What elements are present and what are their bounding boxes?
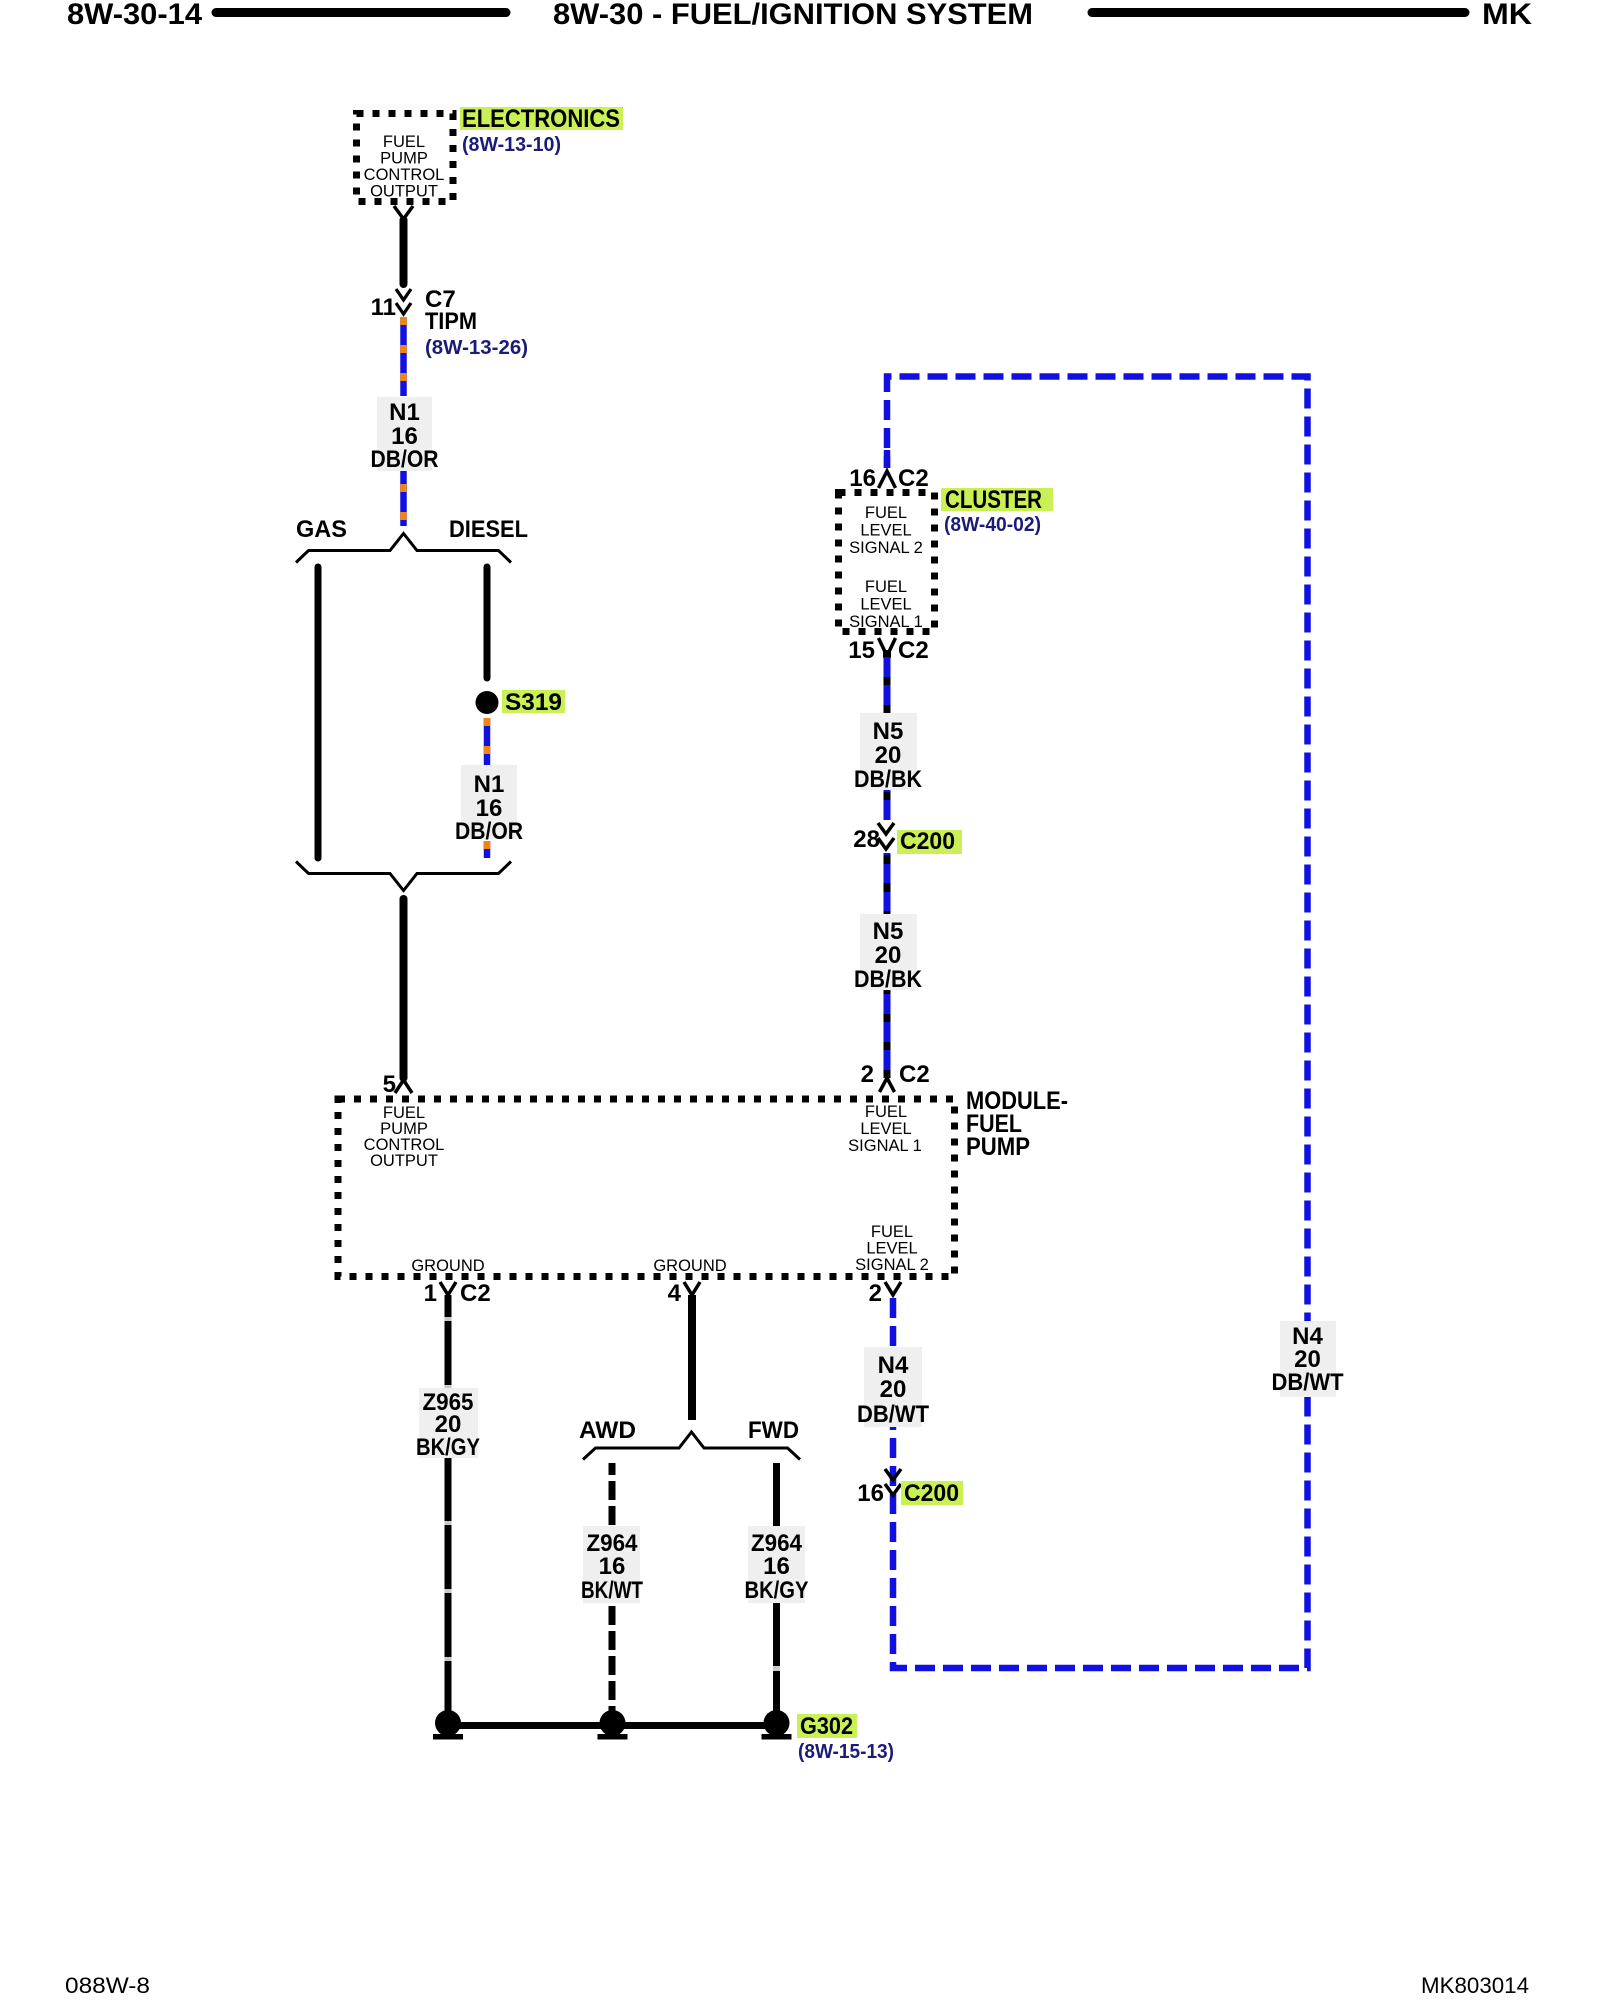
svg-text:1: 1 (424, 1280, 437, 1307)
svg-text:11: 11 (371, 294, 396, 321)
svg-text:GROUND: GROUND (653, 1257, 726, 1275)
svg-text:(8W-13-10): (8W-13-10) (462, 134, 561, 156)
svg-text:16: 16 (857, 1480, 884, 1507)
svg-text:(8W-15-13): (8W-15-13) (798, 1741, 894, 1763)
svg-text:SIGNAL 2: SIGNAL 2 (855, 1256, 929, 1274)
svg-text:TIPM: TIPM (425, 308, 477, 335)
svg-text:N5: N5 (873, 918, 904, 945)
svg-text:8W-30-14: 8W-30-14 (67, 0, 202, 31)
svg-text:16: 16 (599, 1553, 626, 1580)
svg-text:2: 2 (861, 1061, 874, 1088)
svg-text:5: 5 (383, 1071, 396, 1098)
svg-text:MK: MK (1482, 0, 1532, 31)
svg-text:DB/OR: DB/OR (371, 446, 439, 473)
svg-text:C2: C2 (460, 1280, 491, 1307)
svg-text:C2: C2 (898, 465, 929, 492)
svg-text:20: 20 (875, 742, 902, 769)
svg-text:SIGNAL 1: SIGNAL 1 (848, 1137, 922, 1155)
svg-text:16: 16 (763, 1553, 790, 1580)
svg-text:PUMP: PUMP (380, 150, 428, 168)
svg-text:DB/BK: DB/BK (854, 766, 923, 793)
svg-text:LEVEL: LEVEL (860, 522, 911, 540)
svg-text:AWD: AWD (579, 1417, 636, 1444)
svg-text:DIESEL: DIESEL (449, 516, 528, 543)
svg-text:28: 28 (853, 826, 880, 853)
svg-text:FUEL: FUEL (865, 578, 907, 596)
svg-text:DB/WT: DB/WT (857, 1401, 929, 1428)
svg-text:S319: S319 (505, 689, 562, 716)
svg-text:PUMP: PUMP (966, 1133, 1030, 1161)
svg-text:ELECTRONICS: ELECTRONICS (462, 105, 620, 133)
svg-text:GROUND: GROUND (411, 1257, 484, 1275)
svg-text:2: 2 (869, 1280, 882, 1307)
svg-text:OUTPUT: OUTPUT (370, 1152, 438, 1170)
svg-text:N1: N1 (474, 771, 505, 798)
svg-text:20: 20 (875, 942, 902, 969)
svg-text:C2: C2 (899, 1061, 930, 1088)
svg-text:FUEL: FUEL (865, 1103, 907, 1121)
svg-text:SIGNAL 2: SIGNAL 2 (849, 539, 923, 557)
svg-text:CONTROL: CONTROL (364, 166, 445, 184)
svg-text:(8W-40-02): (8W-40-02) (944, 514, 1041, 536)
svg-text:CLUSTER: CLUSTER (945, 486, 1042, 514)
svg-text:(8W-13-26): (8W-13-26) (425, 337, 528, 359)
svg-text:16: 16 (849, 465, 876, 492)
svg-text:DB/WT: DB/WT (1272, 1369, 1344, 1396)
svg-text:BK/GY: BK/GY (745, 1577, 809, 1604)
svg-text:DB/OR: DB/OR (455, 818, 523, 845)
svg-text:BK/GY: BK/GY (416, 1434, 480, 1461)
svg-text:FUEL: FUEL (871, 1223, 913, 1241)
svg-text:C200: C200 (904, 1480, 959, 1507)
svg-text:G302: G302 (800, 1713, 853, 1740)
svg-text:GAS: GAS (296, 516, 347, 543)
svg-text:8W-30 - FUEL/IGNITION SYSTEM: 8W-30 - FUEL/IGNITION SYSTEM (553, 0, 1033, 31)
svg-text:LEVEL: LEVEL (860, 596, 911, 614)
svg-text:OUTPUT: OUTPUT (370, 183, 438, 201)
svg-text:LEVEL: LEVEL (866, 1240, 917, 1258)
svg-text:088W-8: 088W-8 (65, 1973, 150, 1998)
svg-text:C2: C2 (898, 637, 929, 664)
svg-text:N4: N4 (878, 1352, 909, 1379)
svg-text:FUEL: FUEL (383, 133, 425, 151)
svg-text:4: 4 (668, 1280, 682, 1307)
svg-text:N1: N1 (389, 399, 420, 426)
svg-text:SIGNAL 1: SIGNAL 1 (849, 613, 923, 631)
svg-text:FUEL: FUEL (865, 504, 907, 522)
svg-text:20: 20 (880, 1376, 907, 1403)
svg-text:C200: C200 (900, 828, 955, 855)
svg-text:15: 15 (848, 637, 875, 664)
svg-text:N5: N5 (873, 718, 904, 745)
svg-text:BK/WT: BK/WT (581, 1577, 643, 1604)
svg-text:LEVEL: LEVEL (860, 1120, 911, 1138)
svg-text:FWD: FWD (748, 1417, 799, 1444)
svg-text:DB/BK: DB/BK (854, 966, 923, 993)
svg-text:MK803014: MK803014 (1421, 1973, 1529, 1998)
